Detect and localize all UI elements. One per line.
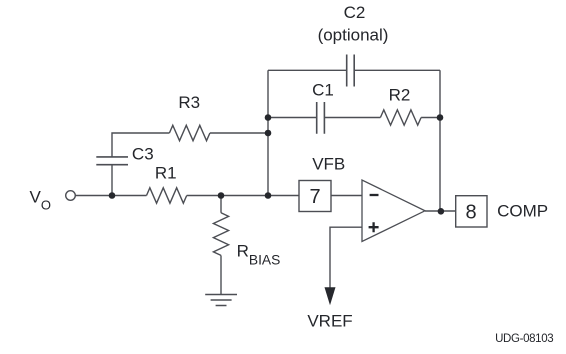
wire output <box>425 210 456 212</box>
svg-text:R2: R2 <box>389 86 411 105</box>
junction dot R2-right <box>437 114 444 121</box>
wire R2 to right vertical <box>421 117 440 119</box>
wire C3 to R3 corner <box>112 133 169 157</box>
wire C2 right <box>354 69 440 71</box>
junction dot output <box>438 208 445 215</box>
svg-text:C3: C3 <box>132 145 154 164</box>
wire trunk vertical <box>267 70 269 195</box>
svg-text:C1: C1 <box>312 81 334 100</box>
svg-text:R1: R1 <box>155 163 177 182</box>
svg-text:(optional): (optional) <box>318 26 389 45</box>
resistor R1 <box>147 188 187 203</box>
capacitor C3 <box>96 157 128 165</box>
ground <box>205 295 237 306</box>
svg-text:RBIAS: RBIAS <box>237 241 281 267</box>
terminal VO <box>66 191 76 201</box>
svg-text:VREF: VREF <box>307 312 352 331</box>
junction dot trunk-C1 <box>265 114 272 121</box>
junction dot trunk-main <box>265 192 272 199</box>
wire R3 to trunk <box>210 132 268 134</box>
svg-text:R3: R3 <box>178 93 200 112</box>
svg-text:COMP: COMP <box>497 201 548 220</box>
junction dot trunk-R3 <box>265 130 272 137</box>
junction dot RBIAS tap <box>218 192 225 199</box>
capacitor C1 <box>317 102 325 134</box>
svg-text:UDG-08103: UDG-08103 <box>495 333 553 345</box>
resistor R2 <box>380 110 421 125</box>
wire C1 left <box>268 117 317 119</box>
svg-text:7: 7 <box>309 186 320 208</box>
pin box 8 <box>456 196 487 227</box>
wire main right <box>187 195 299 197</box>
svg-text:VFB: VFB <box>312 155 345 174</box>
op-amp U1 <box>362 180 425 242</box>
wire C1 to R2 <box>324 117 380 119</box>
resistor RBIAS <box>213 213 228 256</box>
svg-text:8: 8 <box>465 201 476 223</box>
wire right vertical <box>439 70 441 211</box>
minus sign <box>370 194 379 196</box>
wire RBIAS tap <box>220 196 222 213</box>
arrow VREF <box>325 287 336 305</box>
resistor R3 <box>169 125 210 140</box>
wire C2 left <box>268 69 347 71</box>
svg-text:VO: VO <box>30 188 51 213</box>
junction dot C3 tap <box>109 192 116 199</box>
capacitor C2 <box>347 55 355 87</box>
pin box 7 <box>299 181 331 212</box>
wire main left <box>75 195 146 197</box>
plus sign <box>369 222 379 232</box>
svg-text:C2: C2 <box>344 3 366 22</box>
wire box7 to opamp <box>331 195 362 197</box>
wire RBIAS to ground <box>220 255 222 294</box>
wire plus input <box>330 227 362 288</box>
wire C3 branch vertical <box>111 165 113 196</box>
